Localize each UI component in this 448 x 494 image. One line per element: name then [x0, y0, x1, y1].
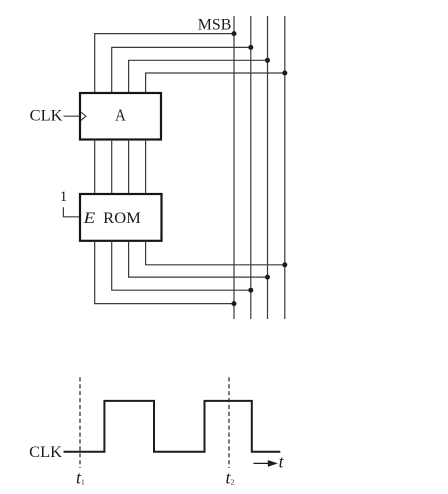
bus line 4: [284, 16, 286, 319]
clock waveform trace: [64, 401, 281, 452]
wire ROM output D3 to bus 4: [146, 241, 285, 265]
svg-text:t: t: [279, 452, 285, 472]
svg-text:A: A: [115, 105, 126, 124]
wire enable 1 to ROM E input: [63, 207, 80, 217]
junction dot bus4 top: [282, 71, 287, 76]
wire CLK to register A: [64, 115, 81, 117]
svg-text:MSB: MSB: [198, 17, 232, 34]
svg-text:CLK: CLK: [29, 444, 62, 461]
bus line 3: [267, 16, 269, 319]
bus line 2: [250, 16, 252, 319]
wire ROM output D1 to bus 2: [112, 241, 251, 290]
wire A output Q0 to bus 4: [146, 73, 285, 93]
svg-text:t1: t1: [76, 468, 85, 488]
junction dot bus1 bottom: [232, 301, 237, 306]
wire A output Q3 to bus 1 (MSB): [95, 34, 234, 93]
junction dot bus1 top: [232, 31, 237, 36]
svg-text:1: 1: [60, 189, 68, 205]
register A block: [80, 93, 161, 140]
junction dot bus3 top: [265, 58, 270, 63]
ROM block: [80, 194, 162, 241]
svg-text:E: E: [82, 210, 95, 227]
svg-text:ROM: ROM: [103, 210, 141, 227]
svg-text:t2: t2: [226, 468, 235, 488]
wire address bit 3 (A to ROM): [94, 140, 96, 195]
wire A output Q1 to bus 3: [129, 60, 268, 93]
junction dot bus2 top: [248, 45, 253, 50]
wire A output Q2 to bus 2: [112, 47, 251, 93]
wire address bit 0 (A to ROM): [145, 140, 147, 195]
wire ROM output D0 to bus 1: [95, 241, 234, 304]
wire address bit 2 (A to ROM): [111, 140, 113, 195]
junction dot bus4 bottom: [282, 262, 287, 267]
time axis arrowhead: [268, 460, 278, 467]
wire ROM output D2 to bus 3: [129, 241, 268, 277]
bus line 1: [233, 16, 235, 319]
dashed marker t1: [79, 377, 81, 468]
dashed marker t2: [228, 377, 230, 468]
wire address bit 1 (A to ROM): [128, 140, 130, 195]
clock input arrowhead: [81, 112, 86, 120]
svg-text:CLK: CLK: [30, 107, 63, 124]
junction dot bus2 bottom: [248, 288, 253, 293]
junction dot bus3 bottom: [265, 275, 270, 280]
time axis arrow: [254, 462, 271, 464]
